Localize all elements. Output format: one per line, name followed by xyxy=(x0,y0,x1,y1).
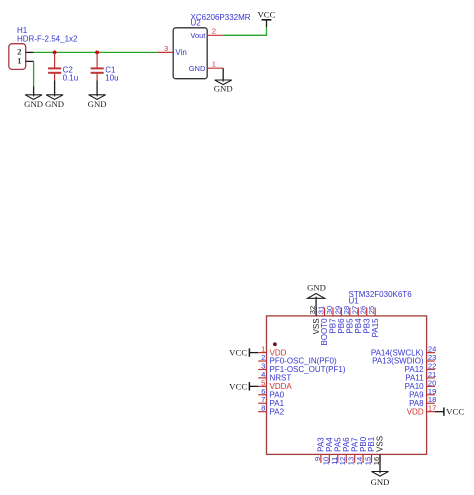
svg-text:VSS: VSS xyxy=(376,436,385,452)
svg-text:3: 3 xyxy=(164,44,168,53)
svg-text:PA2: PA2 xyxy=(270,407,285,416)
svg-text:Vout: Vout xyxy=(190,31,206,40)
svg-text:GND: GND xyxy=(24,99,43,109)
svg-text:GND: GND xyxy=(189,64,206,73)
svg-text:1: 1 xyxy=(212,60,216,69)
svg-text:2: 2 xyxy=(212,27,216,36)
svg-text:U1: U1 xyxy=(349,297,360,306)
svg-text:Vin: Vin xyxy=(175,48,186,57)
svg-text:8: 8 xyxy=(261,404,265,413)
svg-text:VCC: VCC xyxy=(229,348,247,358)
svg-text:10u: 10u xyxy=(105,74,118,83)
svg-text:VCC: VCC xyxy=(229,381,247,391)
svg-text:PA15: PA15 xyxy=(371,318,380,338)
svg-text:GND: GND xyxy=(214,84,233,94)
svg-text:1: 1 xyxy=(17,56,21,66)
svg-text:GND: GND xyxy=(45,99,64,109)
svg-text:25: 25 xyxy=(367,306,376,314)
svg-text:GND: GND xyxy=(307,283,326,293)
svg-text:HDR-F-2.54_1x2: HDR-F-2.54_1x2 xyxy=(17,35,78,44)
svg-text:0.1u: 0.1u xyxy=(63,74,79,83)
svg-text:VDD: VDD xyxy=(407,407,424,416)
svg-text:VCC: VCC xyxy=(446,407,464,417)
svg-text:GND: GND xyxy=(88,99,107,109)
svg-text:U2: U2 xyxy=(191,18,202,27)
svg-text:GND: GND xyxy=(371,477,390,487)
svg-text:VCC: VCC xyxy=(257,9,275,19)
